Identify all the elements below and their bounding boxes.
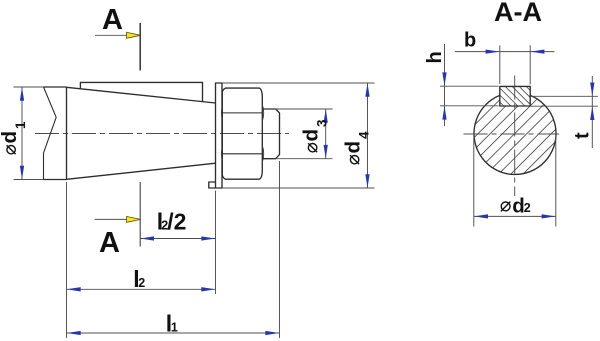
svg-text:A: A	[99, 227, 120, 259]
nut outline	[222, 88, 262, 179]
section center line horizontal	[464, 133, 560, 135]
svg-text:3: 3	[315, 119, 330, 127]
svg-text:/2: /2	[167, 209, 186, 235]
d3 dimension line	[325, 109, 327, 159]
d1 arrow up	[20, 87, 24, 101]
l2 arrow right	[201, 287, 215, 291]
d1 extension line top	[14, 86, 46, 88]
svg-text:A-A: A-A	[494, 0, 542, 27]
key on taper	[80, 82, 202, 101]
d3 extension top	[276, 108, 333, 110]
l2/2 arrow left	[140, 236, 154, 240]
label d3	[300, 119, 330, 152]
yellow section arrow bottom	[127, 216, 141, 222]
shaft circle outline	[474, 95, 556, 174]
d2 extension left	[473, 135, 475, 227]
l1 arrow right	[265, 331, 279, 335]
nut facet line upper	[222, 112, 262, 114]
nut facet arcs	[221, 104, 263, 162]
svg-text:A: A	[102, 4, 123, 36]
svg-text:d: d	[300, 129, 323, 142]
section cut line A top	[139, 23, 141, 71]
svg-text:2: 2	[138, 276, 145, 290]
d4 extension top	[222, 82, 375, 84]
key hatch	[500, 86, 530, 106]
svg-text:d: d	[0, 131, 21, 144]
l1 right extension	[279, 161, 281, 338]
h dimension line	[444, 44, 446, 126]
washer bar	[216, 83, 223, 188]
svg-text:h: h	[424, 51, 446, 63]
svg-text:b: b	[464, 29, 476, 51]
nut facet line lower	[222, 153, 262, 155]
h extension top	[440, 85, 499, 87]
d2 extension right	[555, 135, 557, 227]
t arrow top	[590, 83, 594, 97]
h arrow bottom	[442, 106, 446, 120]
l2 arrow left	[67, 287, 81, 291]
d4 arrow down	[365, 174, 369, 188]
taper start vertical	[66, 87, 68, 180]
l left extension	[66, 182, 68, 338]
t extension top	[531, 95, 598, 97]
l1 arrow left	[67, 331, 81, 335]
t dimension line	[591, 76, 593, 148]
section arrow stem top	[95, 34, 128, 36]
d2 dimension line	[474, 215, 556, 217]
section cut line A bottom	[139, 182, 141, 247]
t extension bottom	[530, 105, 598, 107]
d4 arrow up	[365, 83, 369, 97]
label d1	[0, 121, 28, 154]
label h	[424, 51, 446, 63]
center line main view	[35, 133, 289, 135]
taper bottom edge	[67, 163, 216, 179]
taper top edge	[67, 87, 216, 103]
shaft cylinder bottom edge	[44, 179, 67, 181]
b extension left	[499, 45, 501, 84]
d4 extension bottom	[223, 187, 375, 189]
l2 dimension line	[67, 288, 216, 290]
svg-text:2: 2	[524, 201, 531, 215]
washer tab	[209, 182, 216, 188]
d4 dimension line	[367, 83, 369, 188]
svg-text:4: 4	[357, 131, 372, 139]
d1 extension line bottom	[14, 179, 46, 181]
d1 dimension line	[21, 87, 23, 180]
d3 arrow down	[324, 145, 328, 159]
label d2	[501, 194, 531, 217]
key fill	[500, 86, 530, 106]
svg-text:1: 1	[13, 121, 28, 129]
yellow section arrow top	[127, 32, 141, 38]
b dimension line	[455, 51, 555, 53]
d2 arrow right	[542, 214, 556, 218]
d3 extension bottom	[276, 158, 333, 160]
l2/2 arrow right	[201, 236, 215, 240]
svg-text:t: t	[572, 132, 594, 139]
b arrow left	[486, 49, 500, 53]
l2/2 right extension	[215, 191, 217, 295]
d3 arrow up	[324, 109, 328, 123]
end piece (d3 cylinder)	[262, 109, 280, 159]
key outline	[500, 86, 530, 106]
h extension bottom	[440, 105, 499, 107]
label t	[572, 132, 594, 139]
shaft cylinder top edge	[44, 86, 67, 88]
section arrow stem bottom	[95, 218, 129, 220]
shaft hatch	[474, 93, 556, 175]
l1 dimension line	[67, 332, 280, 334]
l2/2 dimension line	[140, 238, 215, 240]
b arrow right	[530, 49, 544, 53]
t arrow bottom	[590, 106, 594, 120]
break line zigzag	[44, 87, 57, 180]
svg-text:1: 1	[171, 320, 178, 334]
label d4	[342, 131, 372, 164]
b extension right	[529, 45, 531, 84]
section center line vertical	[514, 76, 516, 197]
svg-text:d: d	[342, 141, 365, 154]
h arrow top	[442, 72, 446, 86]
d2 arrow left	[474, 214, 488, 218]
d1 arrow down	[20, 166, 24, 180]
